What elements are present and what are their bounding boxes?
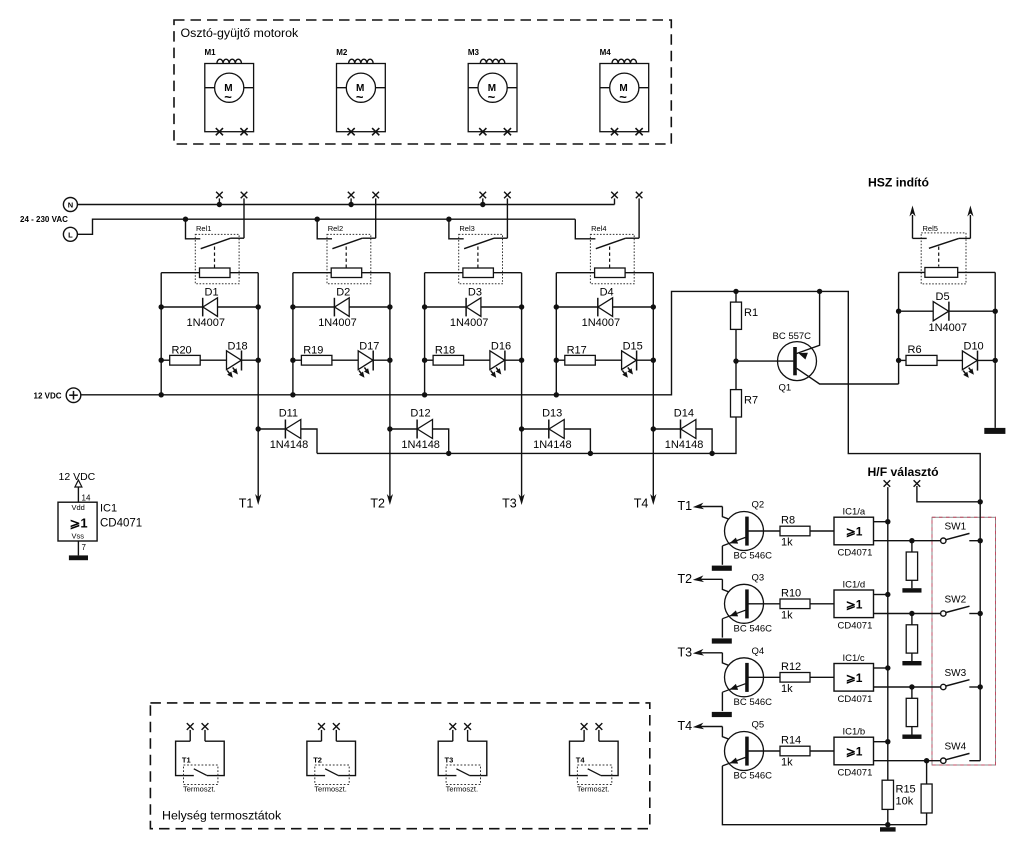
- svg-text:Q4: Q4: [752, 646, 765, 657]
- svg-text:IC1/b: IC1/b: [843, 727, 866, 738]
- junction 12VDC rail block 4: [554, 392, 559, 397]
- wire HF center bus: [887, 487, 889, 780]
- junction D2 left: [290, 304, 295, 309]
- junction D5 left: [896, 309, 901, 314]
- resistor R19: [293, 355, 358, 365]
- wire IC1/a output: [874, 540, 941, 542]
- transistor Q5 BC546C: [722, 732, 780, 771]
- wire Vss pin 7: [77, 541, 79, 555]
- LED D15: [622, 351, 654, 378]
- svg-text:M3: M3: [468, 48, 480, 57]
- wire right rail block 1: [257, 273, 259, 498]
- transistor Q1 BC557C: [736, 291, 899, 384]
- svg-text:Helység termosztátok: Helység termosztátok: [162, 809, 282, 823]
- svg-text:R12: R12: [781, 661, 801, 673]
- motor M2: [337, 59, 386, 135]
- diode D12: [390, 420, 449, 454]
- ground pulldown 1: [902, 588, 921, 592]
- junction IC1/b bus: [885, 739, 890, 744]
- wire Q4 emitter: [721, 692, 723, 711]
- svg-text:R20: R20: [172, 345, 192, 357]
- svg-text:⩾1: ⩾1: [70, 516, 88, 531]
- thermostat T1: [176, 723, 225, 784]
- svg-text:Vss: Vss: [72, 532, 85, 541]
- svg-text:CD4071: CD4071: [838, 768, 873, 779]
- svg-text:T3: T3: [678, 645, 693, 659]
- wire Rel5 coil row: [899, 271, 925, 273]
- svg-text:Q1: Q1: [779, 383, 792, 394]
- diode D4: [556, 298, 653, 317]
- arrow T3 output: [519, 494, 525, 505]
- svg-text:7: 7: [82, 543, 87, 552]
- wire T4 to Q5: [693, 723, 746, 746]
- wire right rail block 3: [521, 273, 523, 498]
- wire IC1/d input stub: [874, 594, 888, 596]
- junction L bus relay 3: [446, 217, 451, 222]
- junction D1 right: [256, 304, 261, 309]
- junction Q1 emitter top: [817, 289, 822, 294]
- svg-text:R18: R18: [435, 345, 455, 357]
- junction 12VDC rail block 3: [422, 392, 427, 397]
- junction N bus block 2: [348, 202, 353, 207]
- wire relay 3 switched: [506, 198, 508, 238]
- wire left rail block 3: [424, 273, 426, 395]
- junction D1 left: [159, 304, 164, 309]
- svg-text:IC1/d: IC1/d: [843, 579, 866, 590]
- svg-text:BC 546C: BC 546C: [734, 697, 773, 708]
- svg-text:M4: M4: [600, 48, 612, 57]
- svg-text:CD4071: CD4071: [838, 620, 873, 631]
- svg-text:SW3: SW3: [945, 668, 967, 679]
- svg-text:T3: T3: [502, 497, 517, 511]
- resistor R17: [556, 355, 621, 365]
- junction IC1/d bus: [885, 592, 890, 597]
- wire IC1/a input stub: [874, 521, 888, 523]
- junction R20 left: [159, 358, 164, 363]
- svg-text:D17: D17: [359, 341, 379, 353]
- ground Q4: [712, 712, 732, 717]
- resistor R1: [731, 291, 742, 361]
- gate IC1/c OR: [834, 664, 874, 692]
- wire IC1/d output: [874, 613, 941, 615]
- terminal 12 VDC plus: [66, 388, 81, 403]
- wire relay 1 switched: [243, 198, 245, 238]
- thermostat T2: [307, 723, 356, 784]
- transistor Q4 BC546C: [722, 658, 780, 697]
- arrow T4 output: [650, 494, 656, 505]
- resistor R7: [731, 361, 742, 417]
- terminal X left motor 1: [216, 192, 223, 199]
- svg-text:Q5: Q5: [752, 720, 765, 731]
- svg-text:Vdd: Vdd: [72, 503, 85, 512]
- switch SW4: [941, 753, 981, 763]
- resistor pulldown 2: [906, 614, 917, 662]
- switch SW2: [941, 606, 981, 616]
- enclosure: Helyseg termosztatok dashed box: [150, 703, 649, 829]
- terminal X left motor 4: [611, 192, 618, 199]
- svg-text:IC1/a: IC1/a: [843, 507, 866, 518]
- svg-text:⩾1: ⩾1: [846, 597, 863, 611]
- terminal X left motor 3: [480, 192, 487, 199]
- junction SW1 right bus: [978, 538, 983, 543]
- svg-text:~: ~: [619, 90, 627, 105]
- resistor pulldown 3: [906, 687, 917, 735]
- gate IC1/b OR: [834, 737, 874, 765]
- wire right rail block 2: [389, 273, 391, 498]
- svg-text:CD4071: CD4071: [838, 548, 873, 559]
- svg-text:24 - 230 VAC: 24 - 230 VAC: [20, 215, 68, 224]
- svg-text:BC 546C: BC 546C: [734, 623, 773, 634]
- ground HSZ: [984, 428, 1005, 434]
- svg-text:~: ~: [488, 90, 496, 105]
- svg-text:M2: M2: [336, 48, 348, 57]
- wire Q3 emitter: [721, 619, 723, 638]
- diode D3: [425, 298, 522, 317]
- svg-text:R14: R14: [781, 735, 801, 747]
- svg-text:T4: T4: [634, 497, 649, 511]
- transistor Q3 BC546C: [722, 584, 780, 623]
- svg-text:R7: R7: [744, 395, 758, 407]
- wire Q2 emitter: [721, 546, 723, 565]
- svg-text:1N4148: 1N4148: [533, 439, 572, 451]
- svg-text:T1: T1: [239, 497, 254, 511]
- svg-text:IC1: IC1: [100, 503, 117, 515]
- svg-text:1N4148: 1N4148: [401, 439, 440, 451]
- svg-text:⩾1: ⩾1: [846, 745, 863, 759]
- svg-text:SW2: SW2: [945, 595, 967, 606]
- diode D14: [653, 420, 712, 454]
- LED D17: [358, 351, 390, 378]
- junction IC1/a bus: [885, 519, 890, 524]
- svg-text:L: L: [68, 230, 73, 239]
- svg-text:Termoszt.: Termoszt.: [183, 785, 216, 794]
- diode D1: [161, 298, 258, 317]
- junction SW4 feedback: [924, 758, 929, 763]
- svg-text:Termoszt.: Termoszt.: [577, 785, 610, 794]
- terminal X left motor 2: [348, 192, 355, 199]
- junction D4 right: [651, 304, 656, 309]
- svg-text:BC 546C: BC 546C: [734, 771, 773, 782]
- wire HSZ left rail: [898, 272, 900, 384]
- svg-text:Osztó-gyüjtő motorok: Osztó-gyüjtő motorok: [181, 26, 300, 40]
- junction R19 left: [290, 358, 295, 363]
- junction SW2 right bus: [978, 611, 983, 616]
- gate IC1/a OR: [834, 517, 874, 545]
- motor M1: [205, 59, 254, 135]
- svg-text:CD4071: CD4071: [838, 694, 873, 705]
- svg-text:Rel3: Rel3: [459, 224, 474, 233]
- wire relay 4 switched: [638, 198, 640, 238]
- junction D5 right: [993, 309, 998, 314]
- junction D2 right: [387, 304, 392, 309]
- svg-text:D16: D16: [491, 341, 511, 353]
- wire Vdd pin 14: [77, 487, 79, 502]
- wire Q5 emitter to ground bus: [722, 766, 926, 825]
- switch SW3: [941, 680, 981, 690]
- wire T1 to Q2: [693, 503, 746, 526]
- junction L bus relay 1: [183, 217, 188, 222]
- switch enclosure red box: [932, 517, 996, 765]
- wire IC1/c output: [874, 686, 941, 688]
- terminal X right motor 2: [372, 192, 379, 199]
- relay Rel5: [909, 206, 973, 284]
- ground Q3: [712, 638, 732, 643]
- svg-text:1k: 1k: [781, 537, 793, 549]
- svg-text:T1: T1: [182, 756, 191, 765]
- svg-text:D11: D11: [279, 408, 298, 420]
- resistor R12: [780, 673, 834, 683]
- enclosure: Oszto-gyujto motorok dashed box: [174, 20, 671, 144]
- wire left rail block 4: [555, 273, 557, 395]
- svg-text:12 VDC: 12 VDC: [59, 471, 96, 483]
- svg-text:⩾1: ⩾1: [846, 671, 863, 685]
- svg-text:T4: T4: [678, 719, 693, 733]
- svg-text:T3: T3: [445, 756, 454, 765]
- wire coil row block 2: [293, 272, 331, 274]
- wire T2 to Q3: [693, 575, 746, 598]
- svg-text:SW1: SW1: [945, 522, 967, 533]
- junction diode bus D13: [588, 451, 593, 456]
- junction ground bus: [885, 822, 890, 827]
- terminal N: [63, 198, 77, 212]
- resistor R18: [425, 355, 490, 365]
- svg-text:1k: 1k: [781, 683, 793, 695]
- resistor R10: [780, 599, 834, 609]
- junction 12VDC rail block 1: [159, 392, 164, 397]
- wire left rail block 2: [292, 273, 294, 395]
- junction D17 right: [387, 358, 392, 363]
- junction D3 left: [422, 304, 427, 309]
- junction pulldown 3: [909, 684, 914, 689]
- wire relay 2 switched: [375, 198, 377, 238]
- svg-text:Termoszt.: Termoszt.: [314, 785, 347, 794]
- resistor R16 feedback: [921, 761, 932, 825]
- wire coil row block 1: [161, 272, 199, 274]
- svg-text:R15: R15: [896, 784, 916, 796]
- arrow T1 output: [255, 494, 261, 505]
- svg-text:R1: R1: [744, 307, 758, 319]
- svg-text:1N4007: 1N4007: [187, 317, 226, 329]
- LED D18: [227, 351, 259, 378]
- wire IC1/c input stub: [874, 667, 888, 669]
- junction IC1/c bus: [885, 665, 890, 670]
- junction R17 left: [554, 358, 559, 363]
- junction D18 right: [256, 358, 261, 363]
- svg-text:D5: D5: [936, 291, 950, 303]
- junction D10 right: [993, 358, 998, 363]
- svg-text:T2: T2: [313, 756, 322, 765]
- junction D15 right: [651, 358, 656, 363]
- svg-text:D1: D1: [205, 287, 219, 299]
- svg-text:D15: D15: [623, 341, 643, 353]
- svg-text:BC 546C: BC 546C: [734, 551, 773, 562]
- svg-text:12 VDC: 12 VDC: [34, 392, 62, 401]
- thermostat T4: [570, 723, 619, 784]
- svg-text:H/F választó: H/F választó: [868, 465, 939, 479]
- switch SW1: [941, 533, 981, 543]
- arrow 12VDC up: [75, 480, 82, 487]
- IC block IC1 CD4071: [58, 502, 97, 541]
- wire right rail block 4: [652, 273, 654, 498]
- relay Rel1: [186, 219, 245, 284]
- svg-text:HSZ indító: HSZ indító: [868, 176, 929, 190]
- junction N bus block 3: [480, 202, 485, 207]
- junction 12VDC rail block 2: [290, 392, 295, 397]
- junction D11 cathode: [256, 426, 261, 431]
- terminal X right motor 3: [504, 192, 511, 199]
- svg-text:Rel4: Rel4: [591, 224, 606, 233]
- svg-text:1k: 1k: [781, 609, 793, 621]
- svg-text:N: N: [68, 201, 73, 210]
- junction pulldown 2: [909, 611, 914, 616]
- diode D2: [293, 298, 390, 317]
- svg-text:D3: D3: [468, 287, 482, 299]
- ground pulldown 3: [902, 735, 921, 739]
- svg-text:BC 557C: BC 557C: [773, 331, 812, 342]
- wire left rail block 1: [160, 273, 162, 395]
- junction D12 cathode: [387, 426, 392, 431]
- svg-text:Rel2: Rel2: [328, 224, 343, 233]
- gate IC1/d OR: [834, 590, 874, 618]
- resistor R6: [899, 355, 963, 365]
- resistor R8: [780, 526, 834, 536]
- wire coil row block 4: [556, 272, 594, 274]
- svg-text:T2: T2: [370, 497, 385, 511]
- junction R1 top: [733, 289, 738, 294]
- svg-text:10k: 10k: [896, 796, 914, 808]
- wire steering diode bus to R7: [317, 417, 736, 453]
- svg-text:T4: T4: [576, 756, 586, 765]
- svg-text:1N4007: 1N4007: [450, 317, 489, 329]
- junction D13 cathode: [519, 426, 524, 431]
- junction L bus relay 2: [315, 217, 320, 222]
- svg-text:1k: 1k: [781, 757, 793, 769]
- svg-text:CD4071: CD4071: [100, 518, 142, 530]
- terminal X right motor 1: [241, 192, 248, 199]
- svg-text:Q3: Q3: [752, 572, 765, 583]
- svg-text:D18: D18: [228, 341, 248, 353]
- svg-text:M1: M1: [205, 48, 217, 57]
- svg-text:1N4148: 1N4148: [665, 439, 704, 451]
- relay Rel2: [317, 219, 376, 284]
- motor M4: [600, 59, 649, 135]
- junction pulldown 1: [909, 538, 914, 543]
- wire T3 to Q4: [693, 649, 746, 672]
- svg-text:1N4007: 1N4007: [318, 317, 357, 329]
- junction D16 right: [519, 358, 524, 363]
- wire IC1/b output: [874, 760, 941, 762]
- svg-text:T2: T2: [678, 572, 693, 586]
- wire 12VDC bus: [81, 291, 980, 501]
- junction N bus block 1: [217, 202, 222, 207]
- wire L feed: [77, 219, 575, 234]
- motor M3: [468, 59, 517, 135]
- svg-text:D12: D12: [410, 408, 430, 420]
- svg-text:D14: D14: [674, 408, 694, 420]
- relay Rel3: [449, 219, 508, 284]
- svg-text:14: 14: [82, 494, 91, 503]
- junction SW3 right bus: [978, 684, 983, 689]
- wire N bus: [77, 204, 614, 206]
- svg-text:1N4007: 1N4007: [929, 322, 968, 334]
- svg-text:D4: D4: [600, 287, 614, 299]
- svg-text:Q2: Q2: [752, 500, 765, 511]
- junction R6 left: [896, 358, 901, 363]
- svg-text:Rel1: Rel1: [196, 224, 211, 233]
- junction D4 left: [554, 304, 559, 309]
- diode D13: [522, 420, 591, 454]
- LED D10: [962, 351, 995, 378]
- transistor Q2 BC546C: [722, 512, 780, 551]
- svg-text:~: ~: [356, 90, 364, 105]
- resistor R14: [780, 746, 834, 756]
- svg-text:R17: R17: [567, 345, 587, 357]
- svg-text:D2: D2: [336, 287, 350, 299]
- junction D3 right: [519, 304, 524, 309]
- ground pulldown 2: [902, 661, 921, 665]
- junction R18 left: [422, 358, 427, 363]
- terminal X HF left: [884, 480, 891, 487]
- resistor pulldown 1: [906, 541, 917, 589]
- diode D11: [258, 420, 317, 454]
- svg-text:SW4: SW4: [945, 742, 967, 753]
- resistor R20: [161, 355, 226, 365]
- arrow T2 output: [387, 494, 393, 505]
- svg-text:R19: R19: [303, 345, 323, 357]
- relay Rel4: [575, 219, 639, 284]
- svg-text:R10: R10: [781, 587, 801, 599]
- terminal X HF right: [914, 480, 921, 487]
- junction Q1 base R1 R7: [733, 358, 738, 363]
- svg-text:~: ~: [224, 90, 232, 105]
- wire HSZ right rail: [994, 272, 996, 428]
- terminal X right motor 4: [636, 192, 643, 199]
- svg-text:IC1/c: IC1/c: [843, 653, 865, 664]
- ground HF: [880, 827, 896, 831]
- svg-text:Termoszt.: Termoszt.: [446, 785, 479, 794]
- thermostat T3: [438, 723, 487, 784]
- svg-text:T1: T1: [678, 499, 693, 513]
- svg-text:D13: D13: [542, 408, 562, 420]
- svg-text:D10: D10: [964, 341, 984, 353]
- svg-text:1N4007: 1N4007: [582, 317, 621, 329]
- junction D14 cathode: [651, 426, 656, 431]
- junction diode bus D14: [709, 451, 714, 456]
- LED D16: [490, 351, 522, 378]
- svg-text:R8: R8: [781, 515, 795, 527]
- wire IC1/b input stub: [874, 741, 888, 743]
- ground Q2: [712, 566, 732, 571]
- resistor R15: [882, 780, 893, 825]
- junction HF right bus top: [978, 499, 983, 504]
- diode D5: [899, 302, 996, 321]
- ground IC1: [69, 555, 88, 560]
- svg-text:R6: R6: [908, 344, 922, 356]
- svg-text:⩾1: ⩾1: [846, 525, 863, 539]
- terminal L: [63, 227, 77, 241]
- wire coil row block 3: [425, 272, 463, 274]
- junction diode bus D12: [446, 451, 451, 456]
- wire HF right bus: [979, 502, 981, 761]
- svg-text:Rel5: Rel5: [923, 224, 938, 233]
- svg-text:1N4148: 1N4148: [270, 439, 309, 451]
